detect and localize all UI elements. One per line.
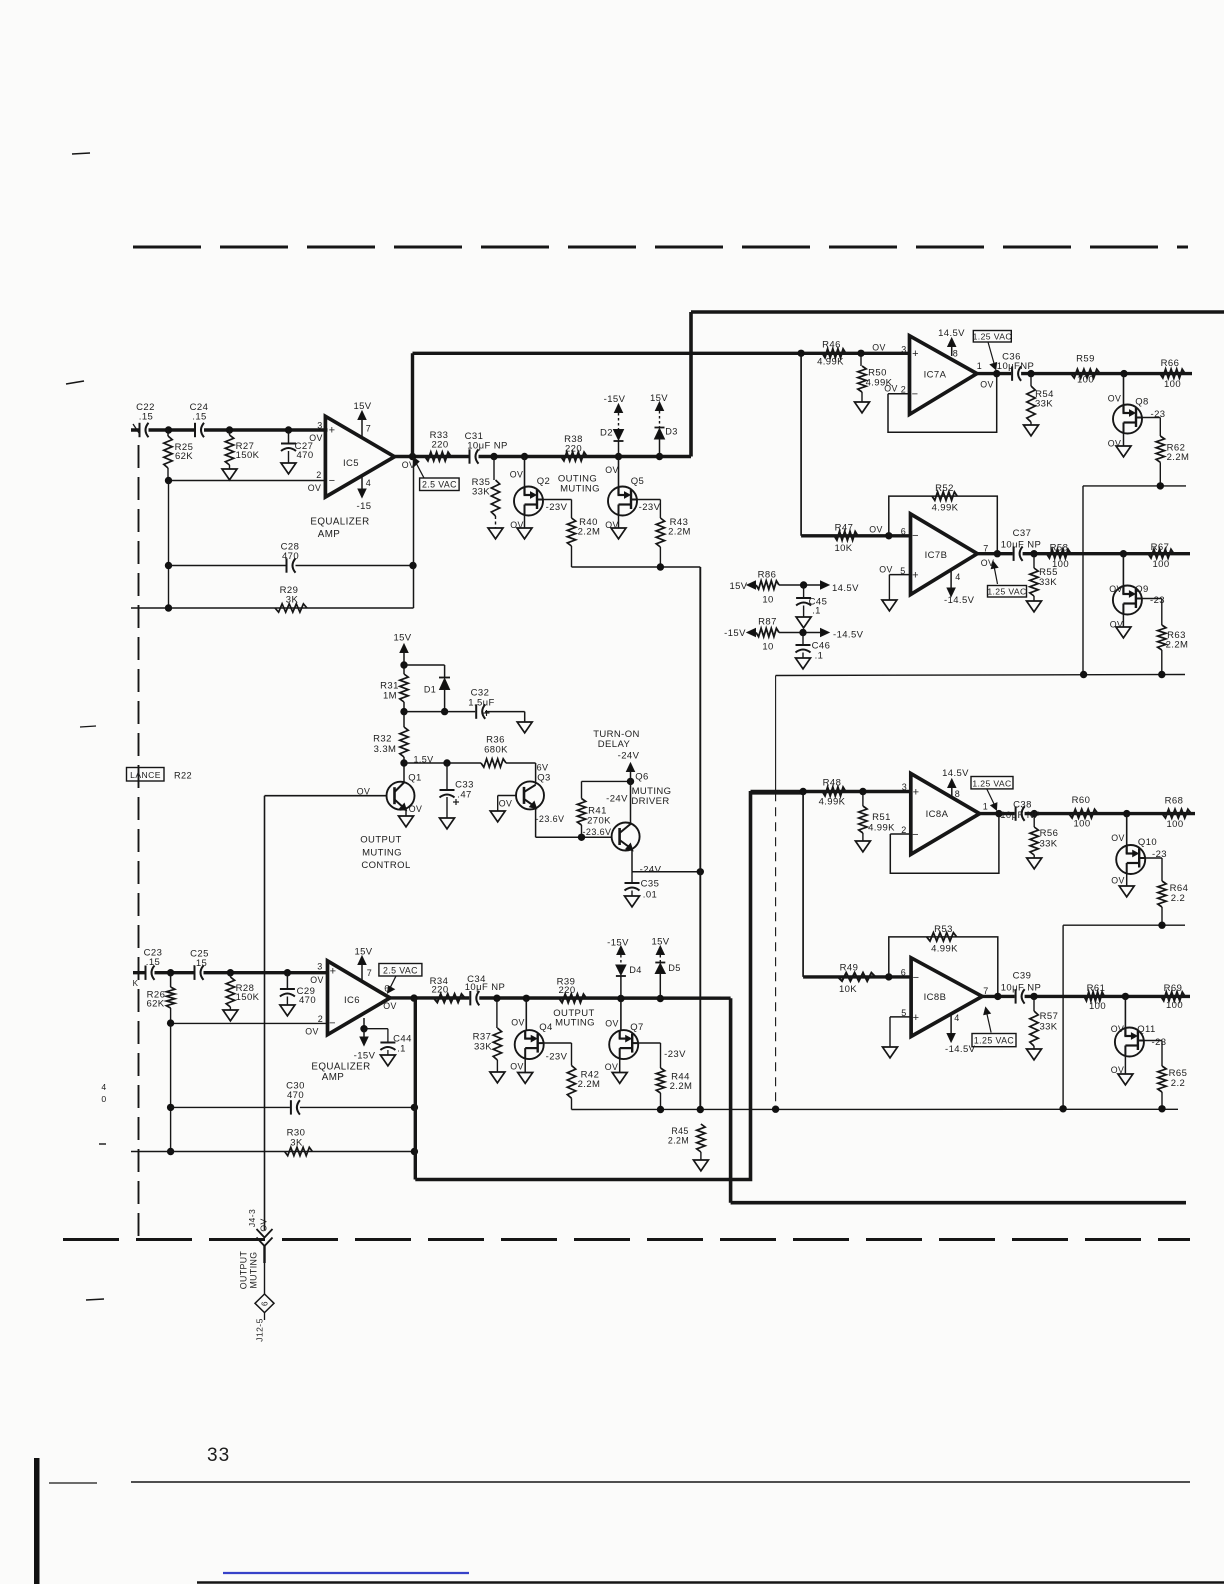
svg-text:680K: 680K <box>484 745 508 756</box>
svg-text:OV: OV <box>310 975 324 985</box>
svg-text:2.5 VAC: 2.5 VAC <box>422 480 457 490</box>
svg-text:R51: R51 <box>872 812 891 823</box>
svg-text:-15V: -15V <box>607 938 629 949</box>
svg-text:3K: 3K <box>286 595 299 606</box>
svg-text:+: + <box>913 1012 920 1024</box>
svg-text:4: 4 <box>101 1082 106 1092</box>
svg-text:R66: R66 <box>1161 358 1180 369</box>
svg-text:33K: 33K <box>1035 399 1053 410</box>
svg-text:Q1: Q1 <box>408 773 421 784</box>
svg-text:OV: OV <box>383 1001 397 1011</box>
svg-text:2: 2 <box>901 825 906 835</box>
svg-text:MUTING: MUTING <box>249 1251 259 1288</box>
svg-text:R61: R61 <box>1087 983 1106 994</box>
svg-text:14.5V: 14.5V <box>832 583 859 594</box>
svg-text:IC5: IC5 <box>343 458 359 469</box>
svg-text:R48: R48 <box>823 778 842 789</box>
svg-text:220: 220 <box>565 444 582 455</box>
svg-text:4.99K: 4.99K <box>932 503 959 514</box>
svg-text:IC7A: IC7A <box>924 370 947 381</box>
svg-text:Q10: Q10 <box>1138 837 1157 848</box>
svg-text:7: 7 <box>983 544 988 554</box>
svg-text:DRIVER: DRIVER <box>631 796 669 807</box>
svg-text:−: − <box>912 829 919 841</box>
svg-text:R67: R67 <box>1151 542 1170 553</box>
svg-text:10: 10 <box>762 595 773 606</box>
svg-text:100: 100 <box>1077 375 1094 386</box>
svg-text:-23.6V: -23.6V <box>583 827 612 837</box>
svg-text:-23: -23 <box>1150 595 1165 606</box>
svg-text:1.5μF: 1.5μF <box>468 698 494 709</box>
svg-text:C38: C38 <box>1013 800 1032 811</box>
svg-text:10μF NP: 10μF NP <box>465 982 505 993</box>
svg-text:7: 7 <box>366 424 371 434</box>
svg-text:OV: OV <box>409 804 423 814</box>
svg-text:OV: OV <box>605 1062 619 1072</box>
svg-text:Q9: Q9 <box>1135 584 1148 595</box>
svg-text:1.25 VAC: 1.25 VAC <box>972 778 1011 788</box>
svg-text:4.99K: 4.99K <box>868 823 895 834</box>
svg-text:33K: 33K <box>474 1042 492 1053</box>
svg-text:OV: OV <box>605 1019 619 1029</box>
svg-text:3: 3 <box>317 962 322 972</box>
svg-text:OV: OV <box>869 525 883 535</box>
svg-text:2.2M: 2.2M <box>670 1081 693 1092</box>
svg-text:OUTPUT: OUTPUT <box>239 1251 249 1290</box>
svg-text:OV: OV <box>1111 1024 1125 1034</box>
svg-text:33K: 33K <box>1039 1022 1057 1033</box>
svg-text:D1: D1 <box>424 685 436 695</box>
svg-text:-23: -23 <box>1152 849 1167 860</box>
svg-text:-23V: -23V <box>664 1049 686 1060</box>
svg-text:2.2M: 2.2M <box>1167 452 1190 463</box>
svg-text:R69: R69 <box>1164 983 1183 994</box>
svg-text:8: 8 <box>955 789 960 799</box>
svg-text:AMP: AMP <box>318 529 340 540</box>
svg-text:.47: .47 <box>457 790 471 801</box>
svg-text:OV: OV <box>259 1218 269 1231</box>
svg-text:-15V: -15V <box>604 394 626 405</box>
svg-text:CONTROL: CONTROL <box>361 860 410 871</box>
svg-text:8: 8 <box>953 349 958 359</box>
svg-text:10μF NP: 10μF NP <box>1000 810 1040 821</box>
svg-text:Q8: Q8 <box>1135 397 1148 408</box>
svg-text:220: 220 <box>431 440 448 451</box>
svg-text:AMP: AMP <box>322 1072 344 1083</box>
svg-text:62K: 62K <box>175 451 193 462</box>
svg-text:C35: C35 <box>641 879 660 890</box>
svg-text:10K: 10K <box>839 984 857 995</box>
svg-text:1.25 VAC: 1.25 VAC <box>973 332 1012 342</box>
svg-text:33: 33 <box>207 1445 230 1466</box>
svg-text:J4-3: J4-3 <box>247 1209 257 1227</box>
svg-text:5: 5 <box>900 566 905 576</box>
svg-text:2.2: 2.2 <box>1171 1078 1185 1089</box>
svg-text:15V: 15V <box>729 581 747 592</box>
svg-text:6: 6 <box>384 984 389 994</box>
svg-text:Q4: Q4 <box>539 1022 552 1033</box>
svg-text:-23: -23 <box>1152 1037 1167 1048</box>
svg-text:MUTING: MUTING <box>362 848 402 859</box>
svg-text:.15: .15 <box>139 412 153 423</box>
svg-text:2.2: 2.2 <box>1171 893 1185 904</box>
svg-text:R68: R68 <box>1165 796 1184 807</box>
svg-text:100: 100 <box>1166 1000 1183 1011</box>
svg-text:150K: 150K <box>236 992 260 1003</box>
svg-text:-15V: -15V <box>724 628 746 639</box>
svg-text:33K: 33K <box>1039 839 1057 850</box>
svg-text:EQUALIZER: EQUALIZER <box>311 1062 370 1073</box>
svg-text:-23V: -23V <box>546 502 568 513</box>
svg-text:-23: -23 <box>1151 409 1166 420</box>
svg-text:OV: OV <box>510 470 524 480</box>
svg-text:.15: .15 <box>192 412 206 423</box>
svg-text:R53: R53 <box>934 924 953 935</box>
svg-text:−: − <box>329 475 336 487</box>
svg-text:R52: R52 <box>935 483 954 494</box>
svg-text:2: 2 <box>901 385 906 395</box>
svg-text:1.25 VAC: 1.25 VAC <box>987 587 1026 597</box>
svg-text:D5: D5 <box>668 963 681 973</box>
svg-text:15V: 15V <box>650 393 668 404</box>
svg-text:IC8A: IC8A <box>926 809 949 820</box>
svg-text:+: + <box>912 348 919 360</box>
svg-text:-15: -15 <box>357 501 372 512</box>
svg-text:-14.5V: -14.5V <box>945 1044 976 1055</box>
svg-text:6V: 6V <box>537 763 549 773</box>
svg-text:Q3: Q3 <box>537 773 550 784</box>
svg-text:2.2M: 2.2M <box>1166 640 1189 651</box>
svg-text:EQUALIZER: EQUALIZER <box>310 517 369 528</box>
svg-text:K: K <box>133 979 139 988</box>
svg-text:220: 220 <box>558 985 575 996</box>
svg-text:10: 10 <box>762 642 773 653</box>
svg-text:D3: D3 <box>665 427 678 437</box>
svg-text:4.99K: 4.99K <box>817 357 844 368</box>
svg-text:OV: OV <box>308 483 322 493</box>
svg-text:.01: .01 <box>643 890 657 901</box>
svg-text:OV: OV <box>981 558 995 568</box>
svg-text:R87: R87 <box>758 617 777 628</box>
svg-text:2: 2 <box>318 1014 323 1024</box>
svg-text:LANCE: LANCE <box>130 770 161 780</box>
svg-text:+: + <box>913 787 920 799</box>
svg-text:3.3M: 3.3M <box>374 744 397 755</box>
svg-text:IC8B: IC8B <box>924 992 947 1003</box>
svg-text:OV: OV <box>357 787 371 797</box>
svg-text:10μF NP: 10μF NP <box>1001 540 1041 551</box>
svg-text:1.25 VAC: 1.25 VAC <box>974 1036 1014 1046</box>
svg-text:-23.6V: -23.6V <box>536 814 565 824</box>
svg-text:10μF NP: 10μF NP <box>1001 983 1041 994</box>
svg-text:2: 2 <box>316 470 321 480</box>
svg-text:Q6: Q6 <box>635 772 648 783</box>
svg-text:OV: OV <box>1111 876 1125 886</box>
svg-text:OV: OV <box>309 433 323 443</box>
svg-text:100: 100 <box>1052 559 1069 570</box>
svg-text:IC6: IC6 <box>344 995 360 1006</box>
svg-text:470: 470 <box>296 450 313 461</box>
svg-text:R58: R58 <box>1050 543 1069 554</box>
svg-text:6: 6 <box>261 1301 270 1306</box>
svg-text:+: + <box>912 570 919 582</box>
svg-text:+: + <box>329 425 336 437</box>
svg-text:R49: R49 <box>840 963 859 974</box>
svg-text:15V: 15V <box>651 937 669 948</box>
svg-text:7: 7 <box>367 968 372 978</box>
svg-text:OV: OV <box>511 1018 525 1028</box>
svg-text:DELAY: DELAY <box>598 739 631 750</box>
svg-text:33K: 33K <box>1039 577 1057 588</box>
svg-text:220: 220 <box>431 985 448 996</box>
svg-text:R47: R47 <box>835 523 854 534</box>
svg-text:.15: .15 <box>146 957 160 968</box>
svg-text:OV: OV <box>402 460 416 470</box>
svg-text:3: 3 <box>902 782 907 792</box>
svg-text:Q5: Q5 <box>631 476 644 487</box>
svg-text:OV: OV <box>305 1027 319 1037</box>
svg-text:10K: 10K <box>834 543 852 554</box>
svg-text:OV: OV <box>1108 439 1122 449</box>
svg-text:−: − <box>912 389 919 401</box>
svg-text:R86: R86 <box>758 570 777 581</box>
svg-text:15V: 15V <box>354 947 372 958</box>
svg-text:-24V: -24V <box>640 864 662 875</box>
svg-text:270K: 270K <box>587 816 611 827</box>
svg-text:4.99K: 4.99K <box>819 797 846 808</box>
svg-text:-23V: -23V <box>546 1052 568 1063</box>
svg-text:R60: R60 <box>1072 795 1091 806</box>
svg-text:-23V: -23V <box>639 502 661 513</box>
svg-text:OV: OV <box>884 384 898 394</box>
svg-text:+: + <box>330 966 337 978</box>
svg-text:OV: OV <box>1111 1065 1125 1075</box>
svg-text:.1: .1 <box>812 606 821 617</box>
svg-text:OV: OV <box>872 343 886 353</box>
svg-text:-15V: -15V <box>354 1051 376 1062</box>
svg-text:-14.5V: -14.5V <box>944 595 975 606</box>
svg-text:R56: R56 <box>1040 828 1059 839</box>
svg-text:15V: 15V <box>353 401 371 412</box>
svg-text:2.2M: 2.2M <box>668 1136 689 1146</box>
svg-text:10μFNP: 10μFNP <box>997 361 1034 372</box>
svg-text:0: 0 <box>101 1094 106 1104</box>
svg-text:100: 100 <box>1073 819 1090 830</box>
svg-text:.1: .1 <box>815 651 824 662</box>
svg-text:2.2M: 2.2M <box>578 527 601 538</box>
svg-text:7: 7 <box>983 986 988 996</box>
svg-text:15V: 15V <box>393 633 411 644</box>
svg-text:OUTPUT: OUTPUT <box>360 835 401 846</box>
svg-text:Q11: Q11 <box>1137 1024 1155 1035</box>
svg-text:MUTING: MUTING <box>560 484 600 495</box>
svg-text:4: 4 <box>955 572 960 582</box>
svg-text:OV: OV <box>1110 620 1124 630</box>
svg-text:2.2M: 2.2M <box>578 1079 601 1090</box>
svg-text:Q7: Q7 <box>630 1022 643 1033</box>
svg-text:−: − <box>913 972 920 984</box>
svg-text:D4: D4 <box>629 965 642 975</box>
svg-text:D2: D2 <box>600 428 613 439</box>
svg-text:-24V: -24V <box>618 751 640 762</box>
svg-text:IC7B: IC7B <box>925 550 948 561</box>
svg-text:100: 100 <box>1164 379 1181 390</box>
svg-text:OV: OV <box>499 799 513 809</box>
svg-text:4.99K: 4.99K <box>931 944 958 955</box>
svg-text:R45: R45 <box>671 1126 688 1136</box>
svg-text:100: 100 <box>1089 1001 1106 1012</box>
svg-text:3: 3 <box>901 345 906 355</box>
svg-text:6: 6 <box>901 968 906 978</box>
svg-text:100: 100 <box>1166 819 1183 830</box>
svg-text:.1: .1 <box>397 1044 406 1055</box>
svg-text:1: 1 <box>983 802 988 812</box>
svg-text:OV: OV <box>1109 584 1123 594</box>
svg-text:OV: OV <box>1108 394 1122 404</box>
svg-text:OV: OV <box>510 1062 524 1072</box>
svg-text:33K: 33K <box>472 487 490 498</box>
svg-text:OV: OV <box>980 380 994 390</box>
svg-text:C37: C37 <box>1013 528 1032 539</box>
svg-text:R59: R59 <box>1076 354 1095 365</box>
svg-text:OV: OV <box>605 465 619 475</box>
svg-text:470: 470 <box>287 1090 304 1101</box>
svg-text:470: 470 <box>299 995 316 1006</box>
svg-text:2.2M: 2.2M <box>668 527 691 538</box>
svg-text:OV: OV <box>1111 833 1125 843</box>
svg-text:OV: OV <box>605 520 619 530</box>
svg-text:14.5V: 14.5V <box>938 328 965 339</box>
svg-text:Q2: Q2 <box>537 476 550 487</box>
svg-text:−: − <box>912 530 919 542</box>
svg-text:R46: R46 <box>822 340 841 351</box>
svg-text:J12-5: J12-5 <box>255 1318 265 1342</box>
svg-text:14.5V: 14.5V <box>942 768 969 779</box>
svg-text:470: 470 <box>282 551 299 562</box>
svg-text:100: 100 <box>1152 559 1169 570</box>
svg-text:3: 3 <box>317 421 322 431</box>
svg-text:3K: 3K <box>290 1138 303 1149</box>
svg-text:OV: OV <box>879 565 893 575</box>
svg-text:-14.5V: -14.5V <box>833 630 864 641</box>
svg-text:1M: 1M <box>383 691 397 702</box>
svg-text:R32: R32 <box>373 734 392 745</box>
svg-text:62K: 62K <box>146 999 164 1010</box>
svg-text:OV: OV <box>510 520 524 530</box>
svg-text:1: 1 <box>977 361 982 371</box>
svg-text:−: − <box>329 1018 336 1030</box>
svg-text:.15: .15 <box>193 958 207 969</box>
svg-text:R22: R22 <box>174 771 192 781</box>
svg-text:4: 4 <box>954 1013 959 1023</box>
svg-text:5: 5 <box>901 1008 906 1018</box>
svg-text:MUTING: MUTING <box>555 1018 595 1029</box>
svg-text:-24V: -24V <box>606 794 628 805</box>
svg-text:4: 4 <box>366 478 371 488</box>
svg-text:1.5V: 1.5V <box>413 755 433 765</box>
svg-text:10μF NP: 10μF NP <box>467 441 507 452</box>
svg-text:C39: C39 <box>1013 971 1032 982</box>
svg-text:2.5 VAC: 2.5 VAC <box>383 965 418 975</box>
svg-text:6: 6 <box>901 527 906 537</box>
svg-text:150K: 150K <box>236 450 260 461</box>
svg-text:R57: R57 <box>1040 1011 1059 1022</box>
